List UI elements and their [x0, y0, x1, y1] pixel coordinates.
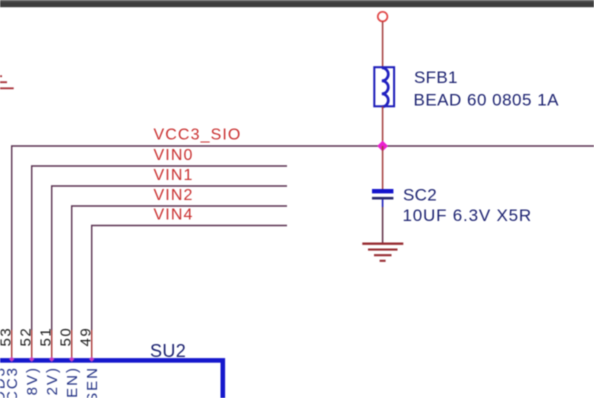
- pin 52 stub: [31, 330, 33, 359]
- svg-text:VCC3: VCC3: [4, 366, 21, 398]
- wire VIN4: [92, 226, 287, 331]
- svg-text:VIN2: VIN2: [154, 187, 194, 204]
- svg-text:50: 50: [58, 327, 75, 347]
- svg-text:BEAD 60 0805 1A: BEAD 60 0805 1A: [414, 91, 560, 110]
- svg-text:52: 52: [18, 327, 35, 347]
- pin 49 stub: [91, 330, 93, 359]
- svg-text:VIN0(1.8V): VIN0(1.8V): [24, 366, 41, 398]
- wire capacitor to ground: [382, 207, 384, 244]
- svg-text:VIN4: VIN4: [154, 207, 194, 224]
- wire VIN2: [72, 206, 287, 330]
- ground: [362, 244, 403, 261]
- pin 53 end marker: [9, 357, 14, 362]
- ferrite bead SFB1: [374, 67, 394, 107]
- svg-text:51: 51: [38, 327, 55, 347]
- capacitor SC2: [372, 189, 393, 207]
- svg-text:49: 49: [78, 327, 95, 347]
- svg-text:VIN2(LDOEN): VIN2(LDOEN): [64, 366, 81, 398]
- svg-text:SU2: SU2: [150, 341, 186, 361]
- pin 51 end marker: [49, 357, 54, 362]
- svg-text:VIN0: VIN0: [154, 147, 194, 164]
- junction node: [377, 141, 388, 152]
- wire circle to bead: [382, 22, 384, 68]
- svg-text:VIN4(SYSEN: VIN4(SYSEN: [84, 366, 101, 398]
- pin 49 end marker: [89, 357, 94, 362]
- svg-text:53: 53: [0, 327, 15, 347]
- title bar: [0, 0, 594, 7]
- wire bead to junction: [382, 107, 384, 147]
- svg-text:VCC3_SIO: VCC3_SIO: [154, 127, 242, 144]
- wire VIN0: [32, 166, 287, 330]
- svg-text:VIN1: VIN1: [154, 167, 194, 184]
- IC body SU2: [0, 360, 223, 398]
- wire VCC3_SIO: [12, 146, 594, 330]
- ground (partial, left edge): [0, 76, 14, 88]
- pin 50 end marker: [69, 357, 74, 362]
- off-page connector circle: [378, 12, 388, 22]
- wire junction to capacitor: [382, 146, 384, 189]
- wire VIN1: [52, 186, 287, 330]
- svg-text:SFB1: SFB1: [414, 68, 458, 87]
- pin 53 stub: [11, 330, 13, 359]
- svg-text:SC2: SC2: [403, 185, 437, 204]
- svg-text:VIN1(1.2V): VIN1(1.2V): [44, 366, 61, 398]
- pin 51 stub: [51, 330, 53, 359]
- svg-text:10UF 6.3V X5R: 10UF 6.3V X5R: [403, 206, 532, 225]
- pin 52 end marker: [29, 357, 34, 362]
- pin 50 stub: [71, 330, 73, 359]
